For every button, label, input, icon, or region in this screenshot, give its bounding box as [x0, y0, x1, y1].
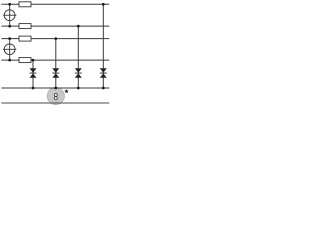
node J6 (D2 top): [54, 37, 57, 40]
wire ground bus: [1, 87, 109, 89]
wire W2 signal line 2: [1, 25, 109, 27]
node J2 (G1 bottom): [8, 25, 11, 28]
node J8 (D4 top): [102, 3, 105, 6]
resistor R3: [19, 36, 31, 41]
resistor R4: [19, 58, 31, 63]
resistor R2: [19, 24, 31, 29]
wire drop D4: [102, 4, 104, 88]
source G2: [3, 39, 16, 61]
isolating spark gap (ring pair): [54, 93, 57, 99]
node J10 (D2 on bus): [54, 87, 57, 90]
source G1: [3, 4, 16, 26]
wire W4 signal line 4: [1, 59, 109, 61]
resistor R1: [19, 2, 31, 7]
highlight circle (gray, marks isolating spark gap): [47, 87, 64, 104]
node J3 (G2 top): [8, 37, 11, 40]
wire W3 signal line 3: [1, 38, 109, 40]
wire drop D3: [77, 26, 79, 88]
wire equipotential bonding conductor: [1, 102, 109, 104]
node J4 (G2 bottom): [8, 59, 11, 62]
surge arrester F4: [100, 68, 107, 78]
wire drop D1: [32, 60, 34, 88]
node J12 (D4 on bus): [102, 87, 105, 90]
node J7 (D3 top): [77, 25, 80, 28]
node J5 (D1 top): [32, 59, 35, 62]
node J9 (D1 on bus): [32, 87, 35, 90]
star footnote marker: [64, 89, 68, 93]
surge arrester F2: [52, 68, 59, 78]
wire W1 signal line 1: [1, 3, 109, 5]
surge arrester F3: [75, 68, 82, 78]
node J1 (G1 top): [8, 3, 11, 6]
surge arrester F1: [30, 68, 37, 78]
node J11 (D3 on bus): [77, 87, 80, 90]
wire drop D2: [55, 39, 57, 88]
